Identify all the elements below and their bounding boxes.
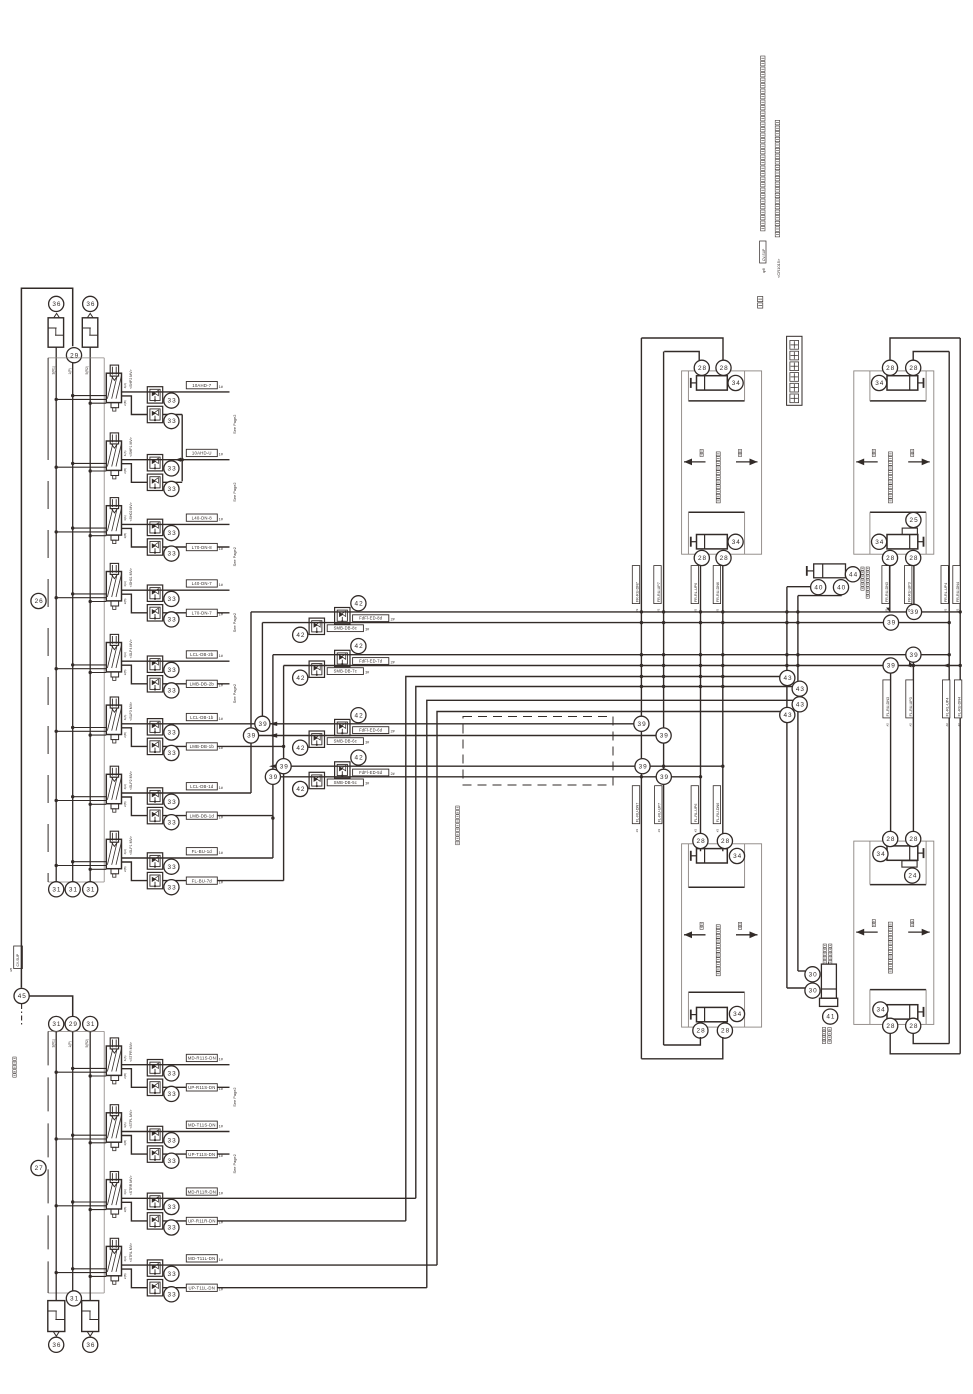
svg-text:4(A): 4(A) bbox=[123, 581, 127, 587]
value label LCL-DB-1d bbox=[186, 783, 217, 790]
wire bus L1 x641 bbox=[640, 338, 642, 1059]
wire stub P to SHP1 MV bbox=[73, 462, 107, 464]
balloon 33 B SH02 MV bbox=[164, 546, 179, 561]
balloon 39 w10 start bbox=[243, 728, 258, 743]
svg-text:3 1: 3 1 bbox=[86, 1021, 95, 1028]
wire P line bbox=[72, 363, 74, 882]
net label FL-RL-UP4 bbox=[943, 680, 950, 718]
value label SMB-DB-5c bbox=[327, 779, 363, 786]
svg-text:2(B): 2(B) bbox=[123, 801, 127, 807]
wire stub P to STPR MV bbox=[73, 1067, 107, 1069]
wire flow arrow V2A junction bbox=[175, 458, 181, 462]
balloon 34 K1 cyl1 bbox=[728, 375, 743, 390]
air unit F2 filter-regulator bbox=[82, 318, 98, 347]
value label UP-T11L-DN bbox=[186, 1284, 217, 1291]
wire B-port SH01 MV bbox=[122, 594, 148, 613]
wire B-port STRR MV bbox=[122, 1202, 148, 1221]
flow control on A STPL MV bbox=[147, 1126, 162, 1142]
svg-text:2 8: 2 8 bbox=[909, 1023, 918, 1030]
balloon 29 on P line bbox=[66, 348, 81, 363]
svg-text:LCL-DB-2b: LCL-DB-2b bbox=[190, 652, 214, 657]
wire stub P to SLP4 MV bbox=[73, 664, 107, 666]
svg-text:3 6: 3 6 bbox=[52, 301, 61, 308]
legend line 2 bbox=[775, 120, 780, 125]
svg-text:4 0: 4 0 bbox=[837, 584, 846, 591]
svg-text:4 3: 4 3 bbox=[796, 701, 805, 708]
text cylinder S1 sub bbox=[822, 1028, 825, 1031]
svg-text:2 8: 2 8 bbox=[697, 1028, 706, 1035]
balloon 42 42d lower bbox=[293, 781, 308, 796]
net label FL-RU-DN4 bbox=[954, 680, 961, 718]
svg-text:#2: #2 bbox=[635, 829, 639, 833]
wire A-port STPR MV bbox=[122, 1064, 230, 1066]
flow control on B SLP3 MV bbox=[147, 738, 162, 754]
value label LCL-DB-1b bbox=[186, 713, 217, 720]
svg-text:3 3: 3 3 bbox=[168, 1291, 177, 1298]
value label SMB-DB-7c bbox=[327, 668, 363, 675]
svg-text:3#: 3# bbox=[365, 670, 369, 674]
value label UP-T11S-DN bbox=[186, 1151, 217, 1158]
balloon 39 w12 cross bbox=[656, 769, 671, 784]
svg-text:2(B): 2(B) bbox=[123, 1273, 127, 1279]
wire K2 feeder upper bbox=[890, 338, 960, 360]
flow control on B SLP1 MV bbox=[147, 872, 162, 888]
svg-text:FL-RU-UP7: FL-RU-UP7 bbox=[658, 803, 662, 822]
svg-text:2 8: 2 8 bbox=[886, 365, 895, 372]
balloon 33 A SH02 MV bbox=[164, 526, 179, 541]
svg-text:#2: #2 bbox=[884, 608, 888, 612]
flow control on A SLP3 MV bbox=[147, 719, 162, 735]
value label FdFl-ED-8d bbox=[353, 615, 389, 622]
svg-text:FdFl-ED-8d: FdFl-ED-8d bbox=[359, 616, 383, 621]
dashed enclosure bbox=[463, 717, 613, 786]
balloon 28 K4 cyl2 right bbox=[906, 1018, 921, 1033]
flow control on A SH02 MV bbox=[147, 519, 162, 535]
svg-text:4 2: 4 2 bbox=[296, 675, 305, 682]
svg-text:3 4: 3 4 bbox=[733, 853, 742, 860]
flow control on B SHP1 MV bbox=[147, 474, 162, 490]
svg-text:2#: 2# bbox=[391, 772, 395, 776]
balloon 45 supply bbox=[14, 988, 29, 1003]
balloon 28 K1 cyl1 right bbox=[716, 360, 731, 375]
flow control 42d lower bbox=[309, 772, 324, 788]
net label FR-RL-UP6 bbox=[691, 566, 698, 604]
svg-text:2(B): 2(B) bbox=[123, 732, 127, 738]
valve STPR MV (B1) bbox=[110, 1038, 118, 1049]
value label FL-BU-1d bbox=[186, 848, 217, 855]
flow control on A SHP1 MV bbox=[147, 455, 162, 471]
svg-text:2 8: 2 8 bbox=[909, 365, 918, 372]
svg-text:3 3: 3 3 bbox=[168, 730, 177, 737]
flow control on B STPR MV bbox=[147, 1079, 162, 1095]
wire A-port SH02 MV bbox=[122, 523, 230, 525]
balloon 42 42b upper bbox=[351, 639, 366, 654]
flow control on A SLP4 MV bbox=[147, 656, 162, 672]
svg-text:3 9: 3 9 bbox=[887, 620, 896, 627]
value label L40-DN-7 bbox=[186, 580, 217, 587]
svg-text:3 3: 3 3 bbox=[168, 1225, 177, 1232]
svg-text:3 9: 3 9 bbox=[269, 774, 278, 781]
svg-text:4 2: 4 2 bbox=[296, 632, 305, 639]
balloon 39 on w2 bbox=[883, 615, 898, 630]
svg-text:<STRR MV>: <STRR MV> bbox=[129, 1175, 133, 1195]
value label MD-R11R-DN bbox=[186, 1188, 217, 1195]
svg-text:3 1: 3 1 bbox=[52, 886, 61, 893]
balloon 33 B STRL MV bbox=[164, 1287, 179, 1302]
balloon 33 B SHP1 MV bbox=[164, 481, 179, 496]
wire stub R2 to SLP4 MV bbox=[90, 672, 106, 674]
svg-text:2 9: 2 9 bbox=[69, 1021, 78, 1028]
wire stub R1 to SH01 MV bbox=[56, 597, 106, 599]
balloon 28 K3 cyl2 left bbox=[693, 1023, 708, 1038]
wire stub R1 to SH02 MV bbox=[56, 531, 106, 533]
wire w7 riser+run bbox=[427, 700, 798, 1287]
regulator block K2 bbox=[902, 528, 917, 534]
svg-text:2 8: 2 8 bbox=[909, 836, 918, 843]
balloon 39 w10 end bbox=[656, 728, 671, 743]
svg-text:4(A): 4(A) bbox=[123, 849, 127, 855]
wire K2 feeder lower bbox=[913, 352, 949, 361]
balloon 25 K2 bbox=[906, 512, 921, 527]
net label FR-RU-DN6 bbox=[713, 566, 720, 604]
wire 30L link bbox=[787, 987, 805, 989]
wire K1 feeder upper bbox=[641, 338, 723, 360]
balloon 33 B STPL MV bbox=[164, 1153, 179, 1168]
svg-text:FR-RU-DN3: FR-RU-DN3 bbox=[885, 582, 889, 602]
svg-text:3 3: 3 3 bbox=[168, 1091, 177, 1098]
wire A-port SLP2 MV bbox=[122, 792, 252, 794]
wire 40R to drop bbox=[798, 594, 841, 597]
svg-text:UP-T11S-DN: UP-T11S-DN bbox=[188, 1152, 215, 1157]
wire stopper drop B x798 bbox=[797, 596, 799, 971]
flow control 42c lower bbox=[309, 731, 324, 747]
balloon 33 B SLP2 MV bbox=[164, 815, 179, 830]
balloon 28 K1 cyl2 left bbox=[694, 550, 709, 565]
valve SHP2 MV (T1) bbox=[110, 365, 118, 376]
wire w8 riser+run bbox=[437, 712, 787, 1266]
wire B-port SHP1 bbox=[122, 464, 148, 483]
value label FdFl-ED-7d bbox=[353, 658, 389, 665]
svg-text:4(A): 4(A) bbox=[123, 1122, 127, 1128]
svg-text:4 2: 4 2 bbox=[355, 755, 364, 762]
svg-text:3/8: 3/8 bbox=[9, 967, 13, 972]
svg-text:2(B): 2(B) bbox=[123, 1140, 127, 1146]
value label UP-R11S-DN bbox=[186, 1084, 217, 1091]
wire stub R2 to SLP2 MV bbox=[90, 803, 106, 805]
svg-text:2(B): 2(B) bbox=[123, 533, 127, 539]
wire stub P to SH02 MV bbox=[73, 527, 107, 529]
wire K3 return inner bbox=[664, 1037, 701, 1045]
svg-text:3 9: 3 9 bbox=[660, 774, 669, 781]
legend line 1 bbox=[761, 56, 765, 60]
wire stub P to SH01 MV bbox=[73, 593, 107, 595]
svg-text:4(A): 4(A) bbox=[123, 515, 127, 521]
balloon 28 K3 cyl1 left bbox=[693, 833, 708, 848]
svg-text:3#: 3# bbox=[365, 740, 369, 744]
wire clamp1 lower drop A bbox=[700, 566, 702, 852]
svg-text:2 8: 2 8 bbox=[886, 555, 895, 562]
balloon 33 A SHP2 MV bbox=[164, 393, 179, 408]
wire stub P to SLP2 MV bbox=[73, 796, 107, 798]
svg-text:<STPR MV>: <STPR MV> bbox=[129, 1042, 133, 1062]
svg-text:3 4: 3 4 bbox=[733, 1011, 742, 1018]
stopper cylinder S2 (44) bbox=[814, 564, 846, 578]
wire clamp2 up-cyl drop A bbox=[889, 566, 891, 612]
balloon 29 P bottom grp bbox=[65, 1016, 80, 1031]
valve SLP3 MV (T6) bbox=[110, 697, 118, 708]
valve SH01 MV (T4) bbox=[110, 563, 118, 574]
flow control on A SH01 MV bbox=[147, 585, 162, 601]
wire 30U link bbox=[798, 970, 805, 972]
wire B-port STPR MV bbox=[122, 1069, 148, 1088]
wire R1 bus bottom bbox=[55, 1031, 57, 1300]
wire R2 bus bottom bbox=[89, 1031, 91, 1300]
wire stub R1 to SHP1 MV bbox=[56, 466, 106, 468]
svg-text:2 8: 2 8 bbox=[886, 1023, 895, 1030]
svg-text:FdFl-ED-7d: FdFl-ED-7d bbox=[359, 659, 383, 664]
svg-text:2 8: 2 8 bbox=[721, 838, 730, 845]
centerline below 45 bbox=[21, 1004, 23, 1026]
wire stub R1 to SLP4 MV bbox=[56, 668, 106, 670]
wire stub R1 to SLP3 MV bbox=[56, 730, 106, 732]
svg-text:4 2: 4 2 bbox=[355, 712, 364, 719]
wire K3 return outer bbox=[641, 1037, 722, 1059]
svg-text:UP-T11L-DN: UP-T11L-DN bbox=[189, 1286, 216, 1291]
value label 10AHD-U bbox=[186, 449, 217, 456]
svg-text:2 8: 2 8 bbox=[721, 1028, 730, 1035]
wire stub P to STRR MV bbox=[73, 1201, 107, 1203]
svg-text:5(R2): 5(R2) bbox=[85, 1039, 89, 1047]
balloon 24 K4 bbox=[905, 868, 920, 883]
svg-text:FL-RL-UP6: FL-RL-UP6 bbox=[694, 804, 698, 823]
svg-text:#2: #2 bbox=[955, 608, 959, 612]
balloon 36 on F3 bbox=[49, 1337, 64, 1352]
svg-text:3 9: 3 9 bbox=[910, 609, 919, 616]
flow control 42c upper bbox=[335, 719, 350, 735]
svg-text:2 8: 2 8 bbox=[720, 555, 729, 562]
wire A-port SLP4 MV bbox=[122, 660, 230, 662]
svg-text:MD-T11L-DN: MD-T11L-DN bbox=[188, 1256, 215, 1261]
wire stub P to SHP2 MV bbox=[73, 395, 107, 397]
value label LMB-DB-1b bbox=[186, 743, 217, 750]
net label FL-RU-DN3 bbox=[883, 680, 890, 718]
wire stub R2 to SHP2 MV bbox=[90, 402, 106, 404]
svg-text:3 1: 3 1 bbox=[86, 886, 95, 893]
flow control on B STRR MV bbox=[147, 1213, 162, 1229]
svg-text:<STPL MV>: <STPL MV> bbox=[129, 1110, 133, 1129]
net label FL-RU-UP7 bbox=[655, 786, 662, 824]
svg-text:FL-BU-7d: FL-BU-7d bbox=[192, 878, 213, 883]
svg-text:<SLP2 MV>: <SLP2 MV> bbox=[129, 771, 133, 790]
svg-text:MD-R11S-DN: MD-R11S-DN bbox=[188, 1056, 216, 1061]
balloon 41 bbox=[823, 1009, 838, 1024]
svg-text:2(B): 2(B) bbox=[123, 670, 127, 676]
balloon 34 K4 cyl1 bbox=[873, 846, 888, 861]
value label MD-T11L-DN bbox=[186, 1255, 217, 1262]
balloon 28 K1 cyl2 right bbox=[716, 550, 731, 565]
svg-text:2(B): 2(B) bbox=[123, 1207, 127, 1213]
svg-text:10AHD-7: 10AHD-7 bbox=[192, 383, 211, 388]
svg-text:SMB-DB-6c: SMB-DB-6c bbox=[334, 739, 357, 744]
balloon 39 on w4 right bbox=[883, 658, 898, 673]
net label FL-RL-UP6 bbox=[691, 786, 698, 824]
svg-text:2 4: 2 4 bbox=[908, 873, 917, 880]
svg-text:3 4: 3 4 bbox=[877, 1007, 886, 1014]
wire stub R2 to STRR MV bbox=[90, 1209, 106, 1211]
svg-text:3 3: 3 3 bbox=[168, 1204, 177, 1211]
balloon 34 K2 cyl2 bbox=[872, 534, 887, 549]
net label FL-RU-DN7 bbox=[632, 786, 639, 824]
value label FL-BU-7d bbox=[186, 877, 217, 884]
svg-text:3 1: 3 1 bbox=[70, 1296, 79, 1303]
balloon 28 K2 cyl1 left bbox=[882, 360, 897, 375]
svg-text:3 3: 3 3 bbox=[168, 551, 177, 558]
net label FR-RL-UP4 bbox=[941, 566, 948, 604]
balloon 42 42a upper bbox=[351, 596, 366, 611]
svg-text:See Page2: See Page2 bbox=[232, 482, 237, 501]
legend title bbox=[758, 297, 763, 302]
balloon 28 K2 cyl2 left bbox=[882, 550, 897, 565]
wire K1 feeder lower bbox=[664, 352, 699, 361]
value label LMB-DB-1d bbox=[186, 812, 217, 819]
manifold box top group bbox=[48, 357, 104, 359]
wire stub R2 to SH02 MV bbox=[90, 535, 106, 537]
balloon 36 on F1 bbox=[49, 296, 64, 311]
svg-text:2 8: 2 8 bbox=[886, 836, 895, 843]
value label L70-DN-7 bbox=[186, 609, 217, 616]
air unit F3 filter-regulator bbox=[48, 1301, 65, 1332]
balloon 31 R2 bottom grp bbox=[83, 1016, 98, 1031]
flow control 42d upper bbox=[335, 762, 350, 778]
clamp assembly K2 (front conveyor lane1) bbox=[854, 371, 934, 554]
svg-text:3 3: 3 3 bbox=[168, 819, 177, 826]
value label LCL-DB-2b bbox=[186, 651, 217, 658]
wire B-port SLP3 MV bbox=[122, 728, 148, 747]
wire flow arrow w4 a bbox=[906, 664, 912, 668]
balloon 31 R1 bottom bbox=[49, 882, 64, 897]
valve SLP1 MV (T8) bbox=[110, 831, 118, 842]
svg-text:2 8: 2 8 bbox=[698, 555, 707, 562]
balloon 40 left bbox=[811, 580, 826, 595]
wire clamp1 lower drop B bbox=[722, 566, 724, 852]
value label SMB-DB-8c bbox=[327, 625, 363, 632]
svg-text:3 9: 3 9 bbox=[910, 652, 919, 659]
wire stub R1 to SLP1 MV bbox=[56, 865, 106, 867]
svg-text:2#: 2# bbox=[391, 660, 395, 664]
svg-text:FdFl-ED-5d: FdFl-ED-5d bbox=[359, 770, 383, 775]
wire stub R1 to SLP2 MV bbox=[56, 800, 106, 802]
value label L70-DN-8 bbox=[186, 543, 217, 550]
wire B-port SLP4 MV bbox=[122, 665, 148, 684]
svg-text:3 3: 3 3 bbox=[168, 1158, 177, 1165]
svg-text:CV-SUP: CV-SUP bbox=[762, 248, 766, 261]
balloon 28 K4 cyl1 right bbox=[906, 831, 921, 846]
balloon 42 42a lower bbox=[293, 627, 308, 642]
value label MD-R11S-DN bbox=[186, 1054, 217, 1061]
wire stub R1 to STRL MV bbox=[56, 1272, 106, 1274]
balloon 34 K3 cyl1 bbox=[729, 848, 744, 863]
flow control 42b upper bbox=[335, 650, 350, 666]
balloon 39 on w9 bbox=[255, 716, 270, 731]
svg-text:FL-RU-DN4: FL-RU-DN4 bbox=[957, 697, 961, 716]
wire A-port SH01 MV bbox=[122, 589, 230, 591]
svg-text:#2: #2 bbox=[908, 723, 912, 727]
svg-text:FdFl-ED-6d: FdFl-ED-6d bbox=[359, 728, 383, 733]
balloon 39 on w1 bbox=[906, 604, 921, 619]
balloon 43 w7 end bbox=[792, 697, 807, 712]
balloon 33 B SH01 MV bbox=[164, 612, 179, 627]
svg-text:L70-DN-8: L70-DN-8 bbox=[192, 545, 213, 550]
wire B-port STRL MV bbox=[122, 1269, 148, 1288]
svg-text:4(A): 4(A) bbox=[123, 715, 127, 721]
balloon 34 K1 cyl2 bbox=[728, 534, 743, 549]
svg-text:3 3: 3 3 bbox=[168, 1137, 177, 1144]
svg-text:3 3: 3 3 bbox=[168, 530, 177, 537]
wire K4 return outer bbox=[890, 1033, 960, 1053]
svg-text:#2: #2 bbox=[944, 608, 948, 612]
svg-text:L40-DN-7: L40-DN-7 bbox=[192, 581, 213, 586]
svg-text:3 3: 3 3 bbox=[168, 1071, 177, 1078]
flow control on B SLP4 MV bbox=[147, 676, 162, 692]
svg-text:3 6: 3 6 bbox=[86, 301, 95, 308]
svg-text:FL-RL-UP4: FL-RL-UP4 bbox=[946, 698, 950, 717]
svg-text:1(P): 1(P) bbox=[68, 368, 72, 374]
balloon 39 on w3 right bbox=[906, 647, 921, 662]
wire A-port STRR MV bbox=[122, 1197, 416, 1199]
svg-text:FL-BU-1d: FL-BU-1d bbox=[192, 849, 213, 854]
manifold box bottom group bbox=[48, 1030, 104, 1032]
balloon 31 R2 bottom bbox=[83, 882, 98, 897]
wire flow arrow bbox=[269, 764, 277, 768]
wire stub P to STRL MV bbox=[73, 1268, 107, 1270]
balloon 28 K2 cyl1 right bbox=[906, 360, 921, 375]
valve SLP4 MV (T5) bbox=[110, 634, 118, 645]
svg-text:3 9: 3 9 bbox=[280, 763, 289, 770]
svg-text:2 7: 2 7 bbox=[35, 1165, 44, 1172]
balloon 33 A SLP4 MV bbox=[164, 662, 179, 677]
svg-text:LCL-DB-1b: LCL-DB-1b bbox=[190, 715, 214, 720]
balloon 39 w9 end bbox=[634, 716, 649, 731]
svg-text:SMB-DB-7c: SMB-DB-7c bbox=[334, 669, 357, 674]
valve STPL MV (B2) bbox=[110, 1105, 118, 1116]
wire left outer boundary bbox=[21, 288, 72, 988]
net label FL-RU-DN6 bbox=[713, 786, 720, 824]
net label FR-RU-DN4 bbox=[953, 566, 960, 604]
svg-text:4(A): 4(A) bbox=[123, 1056, 127, 1062]
valve SHP1 MV (T2) bbox=[110, 433, 118, 444]
balloon 30 lower bbox=[805, 983, 820, 998]
wire stub R2 to SH01 MV bbox=[90, 601, 106, 603]
svg-text:FL-RU-UP3: FL-RU-UP3 bbox=[909, 697, 913, 716]
svg-text:4(A): 4(A) bbox=[123, 451, 127, 457]
clamp assembly K1 (front conveyor lane2) bbox=[682, 371, 762, 554]
balloon 42 42c lower bbox=[293, 740, 308, 755]
wire A-port STPL MV bbox=[122, 1131, 230, 1133]
svg-text:10AHD-U: 10AHD-U bbox=[192, 451, 212, 456]
svg-text:<SLP4 MV>: <SLP4 MV> bbox=[129, 639, 133, 658]
valve STRL MV (B4) bbox=[110, 1238, 118, 1249]
wire A-port SHP1 MV bbox=[122, 459, 230, 461]
wire w10 bbox=[251, 735, 664, 737]
wire stub P to SLP3 MV bbox=[73, 727, 107, 729]
svg-text:SMB-DB-5c: SMB-DB-5c bbox=[334, 780, 357, 785]
balloon 28 K2 cyl2 right bbox=[906, 550, 921, 565]
svg-text:3#: 3# bbox=[365, 782, 369, 786]
svg-text:4 4: 4 4 bbox=[849, 571, 858, 578]
svg-text:CV-SUP: CV-SUP bbox=[16, 953, 20, 966]
svg-text:4(A): 4(A) bbox=[123, 383, 127, 389]
svg-text:<SLP1 MV>: <SLP1 MV> bbox=[129, 836, 133, 855]
